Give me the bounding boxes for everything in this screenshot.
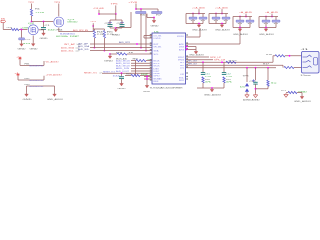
wire Q1 source bus xyxy=(59,31,93,33)
junction LOL c xyxy=(267,67,269,69)
resistor R13 xyxy=(267,80,269,86)
wire +A_AUD d4 xyxy=(249,22,251,27)
pin number right HPL xyxy=(186,61,188,62)
wire rowA v xyxy=(19,59,21,65)
wire R2 to Q2 gate xyxy=(19,29,28,31)
svg-text:AUD_BCLK: AUD_BCLK xyxy=(116,62,131,65)
wire to C5 xyxy=(121,73,123,76)
junction 1v8 xyxy=(98,13,100,15)
junction col gnd xyxy=(211,87,213,89)
svg-text:1u: 1u xyxy=(213,20,218,22)
svg-text:HPL: HPL xyxy=(180,62,184,64)
junction +A_AUD a xyxy=(271,16,273,18)
junction R5 SCL xyxy=(104,50,106,52)
wire +CA_AUD d4 xyxy=(225,19,227,23)
capacitor C12 xyxy=(222,73,226,75)
junction cap tap xyxy=(43,21,45,23)
junction pu2 xyxy=(140,8,142,10)
svg-text:+CA_AUD: +CA_AUD xyxy=(215,6,229,9)
junction INT_AP xyxy=(136,43,138,45)
wire C10 v xyxy=(255,68,257,81)
wire col join xyxy=(197,87,224,89)
wire C10 d xyxy=(255,84,257,93)
resistor R15 xyxy=(226,61,236,63)
pin number right SPKLM xyxy=(186,58,188,59)
wire HPL jog xyxy=(272,56,274,63)
wire AUD_DOUT xyxy=(131,70,152,72)
wire ref stub xyxy=(144,78,152,80)
ground agnd C10 xyxy=(253,93,257,97)
ground GND_AUDIO cols xyxy=(210,88,214,92)
wire pu gnd stem xyxy=(153,18,155,20)
junction TP6 xyxy=(115,13,117,15)
ground GND C5 xyxy=(120,82,124,86)
resistor R14 xyxy=(288,91,297,93)
junction R4 SDA xyxy=(94,47,96,49)
svg-text:AUD_SDA: AUD_SDA xyxy=(78,45,90,48)
wire +A_AUD stem xyxy=(245,14,247,17)
wire R14 down xyxy=(301,93,303,96)
capacitor C2 xyxy=(19,38,25,40)
wire TP7 a xyxy=(286,92,288,94)
junction dvss xyxy=(186,46,188,48)
wire +A_AUD d1 xyxy=(265,17,267,21)
svg-text:GND_AUDIO: GND_AUDIO xyxy=(259,33,275,36)
ground GND rowC xyxy=(25,93,29,97)
svg-text:SPKLP: SPKLP xyxy=(178,57,185,59)
svg-text:AUD_SCL: AUD_SCL xyxy=(78,48,89,51)
wire INT_AP xyxy=(90,43,152,45)
wire R1 to gate node xyxy=(31,16,33,22)
resistor R9 xyxy=(136,60,146,62)
pin number right HPR xyxy=(186,64,188,65)
wire +A_AUD d2 xyxy=(249,17,251,21)
wire R7 to SCL xyxy=(145,14,147,51)
wire AUD_DIN xyxy=(131,67,152,69)
wire C4 bottom xyxy=(121,26,123,28)
junction icl2 xyxy=(146,78,148,80)
svg-text:GND: GND xyxy=(151,25,160,27)
pin number right IN1R xyxy=(186,78,188,79)
svg-text:GND_AUDIO: GND_AUDIO xyxy=(215,29,231,32)
svg-text:AUD_INT1: AUD_INT1 xyxy=(119,41,130,44)
svg-text:1u: 1u xyxy=(271,82,277,84)
wire R6 to SDA xyxy=(140,14,142,48)
wire AUD_MCLK b xyxy=(146,60,152,62)
junction icl1 xyxy=(146,76,148,78)
pin number IOVDD xyxy=(150,36,152,37)
junction +A_AUD g xyxy=(239,27,241,29)
transistor Q2 xyxy=(28,25,38,35)
wire TP2 to R1 xyxy=(31,4,33,10)
ground GND caps xyxy=(114,28,118,32)
wire +A_AUD bot xyxy=(233,27,250,29)
junction R7 SCL xyxy=(145,50,147,52)
wire gate bus xyxy=(32,21,54,23)
svg-text:1n: 1n xyxy=(247,23,252,25)
wire SPKLM xyxy=(186,59,213,61)
svg-text:AUD_MCLK: AUD_MCLK xyxy=(116,59,131,62)
capacitor C11 xyxy=(201,73,205,75)
svg-text:+CA_AUD: +CA_AUD xyxy=(192,6,206,9)
wire HPR jog xyxy=(282,65,284,67)
svg-text:GND: GND xyxy=(23,99,33,101)
svg-text:C2: C2 xyxy=(25,39,30,41)
wire R10 to IC xyxy=(140,75,152,77)
wire to C1 xyxy=(43,22,45,28)
junction +A_AUD b xyxy=(239,16,241,18)
svg-text:+1V8: +1V8 xyxy=(128,2,138,4)
svg-text:BLM18SPG1: BLM18SPG1 xyxy=(30,80,44,82)
junction +A_AUD g xyxy=(265,27,267,29)
svg-text:+1V8_AUD: +1V8_AUD xyxy=(93,7,105,10)
wire +A_AUD d3 xyxy=(265,22,267,27)
wire +A_AUD bot xyxy=(259,27,276,29)
junction +CA_AUD a xyxy=(198,13,200,15)
pin number BCLK xyxy=(150,62,152,63)
capacitor C1 xyxy=(41,28,46,30)
svg-text:IOVDD: IOVDD xyxy=(154,38,162,40)
wire +CA_AUD stem xyxy=(221,9,223,13)
svg-text:D1: D1 xyxy=(240,87,245,89)
junction +A_AUD b xyxy=(265,16,267,18)
resistor R6 xyxy=(136,11,147,13)
svg-text:GND_AUDIO: GND_AUDIO xyxy=(47,98,64,101)
junction R8 in xyxy=(109,53,111,55)
pin number MICBIAS xyxy=(150,77,152,78)
wire D1 d xyxy=(246,92,248,93)
pin number DIN xyxy=(150,67,152,68)
wire R8 to IC xyxy=(127,53,152,55)
wire HPR c xyxy=(294,67,302,69)
capacitor C3 plus mark xyxy=(108,21,112,25)
svg-text:1n: 1n xyxy=(200,20,205,22)
svg-text:AUD_DOUT: AUD_DOUT xyxy=(116,70,130,73)
resistor R18 xyxy=(202,77,204,83)
wire 1v8 link xyxy=(99,13,116,15)
wire TP6 stem xyxy=(115,5,117,14)
pin number RESET xyxy=(150,72,152,73)
wire 1v8 stem2 xyxy=(135,4,137,10)
junction HPL col1 xyxy=(202,61,204,63)
svg-text:R7: R7 xyxy=(156,15,161,17)
capacitor +CA_AUD C a xyxy=(212,17,220,19)
ground GND_AUDIO R14 xyxy=(300,95,304,99)
pin number INT xyxy=(150,42,152,43)
wire AUD_MCLK a xyxy=(131,60,136,62)
wire EN down xyxy=(2,23,4,30)
wire TP3 to Q1 drain xyxy=(58,4,60,17)
pin number GPIO xyxy=(150,74,152,75)
wire iovdd stub xyxy=(144,37,152,39)
wire +CA_AUD d3 xyxy=(215,19,217,23)
wire gnd v xyxy=(146,77,148,85)
wire pullup bridge xyxy=(93,28,104,30)
junction pu gnd xyxy=(153,17,155,19)
wire EN to R2 xyxy=(3,29,11,31)
svg-text:+A_AUD: +A_AUD xyxy=(265,11,279,14)
wire +CA_AUD bot xyxy=(186,23,203,25)
wire AUD_SDA xyxy=(90,47,152,49)
wire HPR xyxy=(186,64,283,66)
wire rowB up xyxy=(43,76,45,80)
svg-text:GPIO: GPIO xyxy=(154,75,161,77)
wire +CA_AUD left xyxy=(208,14,210,24)
junction HPL jack xyxy=(289,55,291,57)
svg-text:GND_AUDIO: GND_AUDIO xyxy=(233,33,249,36)
ground agnd D1 xyxy=(245,93,249,97)
wire C4 top xyxy=(121,20,123,24)
svg-text:AUD_WCLK: AUD_WCLK xyxy=(116,65,131,68)
capacitor +A_AUD C b xyxy=(246,20,254,22)
svg-text:+A_AUD: +A_AUD xyxy=(239,11,253,14)
svg-text:2.2k: 2.2k xyxy=(97,34,104,36)
resistor R2 xyxy=(11,28,19,30)
capacitor +A_AUD C a xyxy=(262,20,270,22)
pin number SPI_SEL xyxy=(150,45,152,46)
wire C2 to ground xyxy=(21,40,23,42)
junction caps gnd xyxy=(115,27,117,29)
svg-text:DMG1012: DMG1012 xyxy=(68,22,79,24)
wire C5 to gnd xyxy=(121,79,123,82)
connector J1 contacts xyxy=(303,55,318,68)
svg-text:SPI_SEL: SPI_SEL xyxy=(154,46,162,48)
wire loop v xyxy=(130,12,132,28)
wire rowB v xyxy=(17,76,19,80)
wire loop h xyxy=(116,27,131,29)
wire +A_AUD d3 xyxy=(239,22,241,27)
pin number right IN1L xyxy=(186,76,188,77)
wire Q1 source down xyxy=(58,28,60,32)
wire +A_AUD rail xyxy=(259,16,278,18)
capacitor +CA_AUD C a xyxy=(189,17,197,19)
ground GND_AUDIO +A_AUD xyxy=(264,28,268,32)
svg-text:INT_AP: INT_AP xyxy=(64,43,76,46)
resistor R5 xyxy=(103,31,105,39)
resistor R19 xyxy=(223,77,225,83)
pin number right SPKLP xyxy=(186,55,188,56)
capacitor +CA_AUD C b xyxy=(222,17,230,19)
wire AUD_SCL xyxy=(90,50,152,52)
wire to R5 xyxy=(103,29,105,31)
wire to R8 xyxy=(110,53,117,55)
capacitor C5 xyxy=(119,77,124,79)
wire col2 v xyxy=(223,62,225,72)
wire rowC dr xyxy=(54,86,56,93)
wire +CA_AUD d4 xyxy=(202,19,204,23)
pin number MCLK xyxy=(150,59,152,60)
capacitor C10 plus mark xyxy=(252,79,255,82)
svg-text:AUD_DIN: AUD_DIN xyxy=(116,67,130,70)
wire +A_AUD d4 xyxy=(275,22,277,27)
svg-text:BLM18SPG1: BLM18SPG1 xyxy=(30,86,44,88)
ground GND_AUDIO +CA_AUD xyxy=(220,24,224,28)
wire HPL xyxy=(186,61,273,63)
wire to C2 xyxy=(21,30,23,38)
junction TP5 xyxy=(92,25,94,27)
svg-text:GND: GND xyxy=(18,48,27,50)
svg-text:LOL: LOL xyxy=(180,68,184,70)
pin number right SPKVDD xyxy=(186,34,188,35)
wire R10 in xyxy=(125,75,131,77)
junction R6 SDA xyxy=(140,47,142,49)
diode D1b xyxy=(245,88,249,91)
wire +CA_AUD d1 xyxy=(215,14,217,18)
wire spkvdd a xyxy=(186,36,200,38)
wire +CA_AUD d2 xyxy=(202,14,204,18)
svg-text:2.2u: 2.2u xyxy=(226,76,232,78)
wire +CA_AUD rail xyxy=(209,13,228,15)
wire rowA up xyxy=(43,61,45,65)
pin number right AVDD xyxy=(186,42,188,43)
svg-text:47k: 47k xyxy=(205,82,211,84)
svg-text:AUD_SCL: AUD_SCL xyxy=(61,50,75,53)
pin number SDA xyxy=(150,49,152,50)
svg-text:AGND: AGND xyxy=(252,98,261,101)
svg-text:GND: GND xyxy=(40,38,49,40)
wire rowA h xyxy=(20,64,44,66)
wire +1V8 stem xyxy=(98,10,100,14)
junction LOL b xyxy=(255,67,257,69)
wire ldo join xyxy=(143,36,145,39)
svg-text:+1V8_AUDIO: +1V8_AUDIO xyxy=(46,74,63,77)
svg-text:3.5mm: 3.5mm xyxy=(301,75,312,77)
svg-text:1u: 1u xyxy=(263,23,268,25)
svg-text:SPK_LP: SPK_LP xyxy=(210,57,222,59)
ground GND ic left xyxy=(145,84,149,88)
capacitor +A_AUD C b xyxy=(272,20,280,22)
hier pin flag xyxy=(1,20,6,22)
junction +CA_AUD a xyxy=(221,13,223,15)
resistor R4 xyxy=(93,31,95,39)
wire mclk drop xyxy=(135,61,137,76)
wire R5 to SCL xyxy=(103,38,105,51)
svg-text:BLM18SPG1: BLM18SPG1 xyxy=(30,65,44,67)
power flag row B xyxy=(16,73,19,75)
capacitor C4 xyxy=(120,25,125,27)
junction C2 tap xyxy=(21,29,23,31)
wire R13 v xyxy=(267,68,269,81)
svg-text:+1: +1 xyxy=(14,73,19,75)
svg-text:REF: REF xyxy=(154,81,159,83)
wire avdd up xyxy=(239,28,241,44)
capacitor C10 xyxy=(253,82,257,84)
ground GND_AUDIO rowC xyxy=(53,93,57,97)
wire AUD_WCLK xyxy=(131,65,152,67)
junction pu1 xyxy=(135,8,137,10)
wire rowC h xyxy=(27,85,55,87)
wire cap rail xyxy=(110,19,122,21)
ground GND_AUDIO +A_AUD xyxy=(238,28,242,32)
resistor R8 xyxy=(117,53,127,55)
svg-text:GND_AUDIO: GND_AUDIO xyxy=(294,100,312,103)
wire +CA_AUD bot xyxy=(209,23,226,25)
svg-text:TP8: TP8 xyxy=(243,75,249,77)
capacitor +CA_AUD C b xyxy=(199,17,207,19)
capacitor C4 plus mark xyxy=(120,21,124,25)
svg-text:GND: GND xyxy=(30,48,39,50)
resistor R16 xyxy=(275,55,285,57)
wire HPL b xyxy=(273,55,275,57)
wire TP5 stem xyxy=(92,23,94,31)
capacitor +A_AUD C a xyxy=(236,20,244,22)
wire col2 d xyxy=(223,83,225,88)
wire C3 bottom xyxy=(109,26,111,28)
wire C3 top xyxy=(109,20,111,24)
wire to R4 xyxy=(93,29,95,31)
ground GND_AUDIO +CA_AUD xyxy=(197,24,201,28)
wire to R7 xyxy=(157,9,159,12)
wire +CA_AUD d1 xyxy=(192,14,194,18)
wire spkvdd up xyxy=(199,28,201,37)
resistor R1 xyxy=(30,9,32,16)
junction +A_AUD a xyxy=(245,16,247,18)
svg-text:GND_AUDIO: GND_AUDIO xyxy=(204,93,222,96)
power flag row A xyxy=(18,57,21,59)
ground GND R8 xyxy=(108,55,112,59)
wire micbias stub xyxy=(144,76,152,78)
svg-text:R17: R17 xyxy=(263,64,269,66)
svg-text:SPKVDD: SPKVDD xyxy=(177,36,185,38)
svg-text:TLV320AIC3204IRHBR: TLV320AIC3204IRHBR xyxy=(150,86,184,89)
svg-text:GND: GND xyxy=(143,91,151,93)
junction +CA_AUD b xyxy=(215,13,217,15)
pin number right LOR xyxy=(186,72,188,73)
wire Q2 source down xyxy=(32,36,34,43)
wire AUD_BCLK xyxy=(131,62,152,64)
wire SPKLP xyxy=(186,56,209,58)
op-amp U1 codec box xyxy=(152,33,186,84)
wire HPL c xyxy=(285,55,302,57)
pin number right LOL xyxy=(186,66,188,67)
wire D1 v xyxy=(246,68,248,82)
svg-text:RESET_TLV: RESET_TLV xyxy=(84,73,98,75)
pin number right AVSS xyxy=(186,48,188,49)
junction HPL col2 xyxy=(221,61,223,63)
capacitor C3 xyxy=(108,25,113,27)
junction +CA_AUD b xyxy=(192,13,194,15)
wire +A_AUD d2 xyxy=(275,17,277,21)
pin number right DVSS xyxy=(186,45,188,46)
ground GND under C2 xyxy=(20,42,24,46)
wire ldo stub xyxy=(144,35,152,37)
junction reset cap xyxy=(121,72,123,74)
wire down to caps xyxy=(115,14,117,20)
wire RESET_TLV xyxy=(102,72,152,74)
wire col1 v xyxy=(202,62,204,72)
ground GND pullups xyxy=(152,19,156,23)
svg-text:600R 100MHz: 600R 100MHz xyxy=(56,36,68,38)
wire +CA_AUD d3 xyxy=(192,19,194,23)
svg-text:AUD_SPK_EN: AUD_SPK_EN xyxy=(73,29,89,32)
resistor R17 xyxy=(284,66,294,68)
svg-text:GND_AUDIO: GND_AUDIO xyxy=(192,29,208,32)
wire R6 down xyxy=(146,14,148,18)
pin number DOUT xyxy=(150,69,152,70)
wire dvss stub xyxy=(186,46,196,48)
svg-text:+1V8: +1V8 xyxy=(35,12,45,14)
wire R14 b xyxy=(297,92,302,94)
diode D1a xyxy=(245,83,249,86)
wire +CA_AUD left xyxy=(185,14,187,24)
ground GND under Q2 xyxy=(31,42,35,46)
resistor R10 xyxy=(131,74,140,76)
svg-text:47k: 47k xyxy=(226,82,232,84)
junction LOL a xyxy=(246,67,248,69)
svg-text:1n: 1n xyxy=(223,20,228,22)
svg-text:GND_AUDIO: GND_AUDIO xyxy=(189,53,205,56)
wire +A_AUD stem xyxy=(271,14,273,17)
